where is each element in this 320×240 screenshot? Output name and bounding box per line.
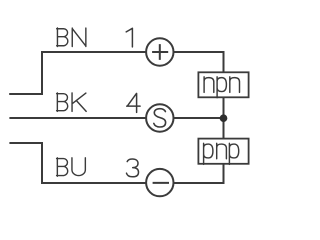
wire from + terminal to right bus	[173, 51, 225, 53]
wire BN vertical riser	[41, 52, 43, 95]
wire BU vertical drop	[41, 142, 43, 183]
terminal circle - (L-)	[146, 169, 173, 196]
terminal circle S (output)	[146, 104, 173, 131]
wire right vertical bus	[223, 51, 225, 184]
label BN	[57, 28, 86, 47]
pin number 3	[127, 159, 139, 177]
wire from - terminal to right bus	[173, 182, 225, 184]
wire BU horizontal to - terminal	[41, 182, 147, 184]
pin number 4	[127, 93, 140, 112]
wire BU stub (left connector)	[9, 142, 42, 144]
label BK	[57, 93, 87, 112]
wire BK horizontal to S terminal	[9, 117, 147, 119]
npn output box	[198, 72, 248, 97]
terminal circle + (L+)	[146, 38, 173, 65]
wire from S terminal to junction	[173, 117, 224, 119]
pin number 1	[126, 28, 132, 47]
node junction dot	[220, 114, 228, 122]
wire BN stub (left connector)	[9, 93, 42, 95]
wire BN horizontal to + terminal	[41, 51, 147, 53]
label npn	[204, 77, 214, 93]
label BU	[57, 158, 86, 177]
label pnp	[204, 143, 213, 164]
pnp output box	[198, 139, 248, 165]
